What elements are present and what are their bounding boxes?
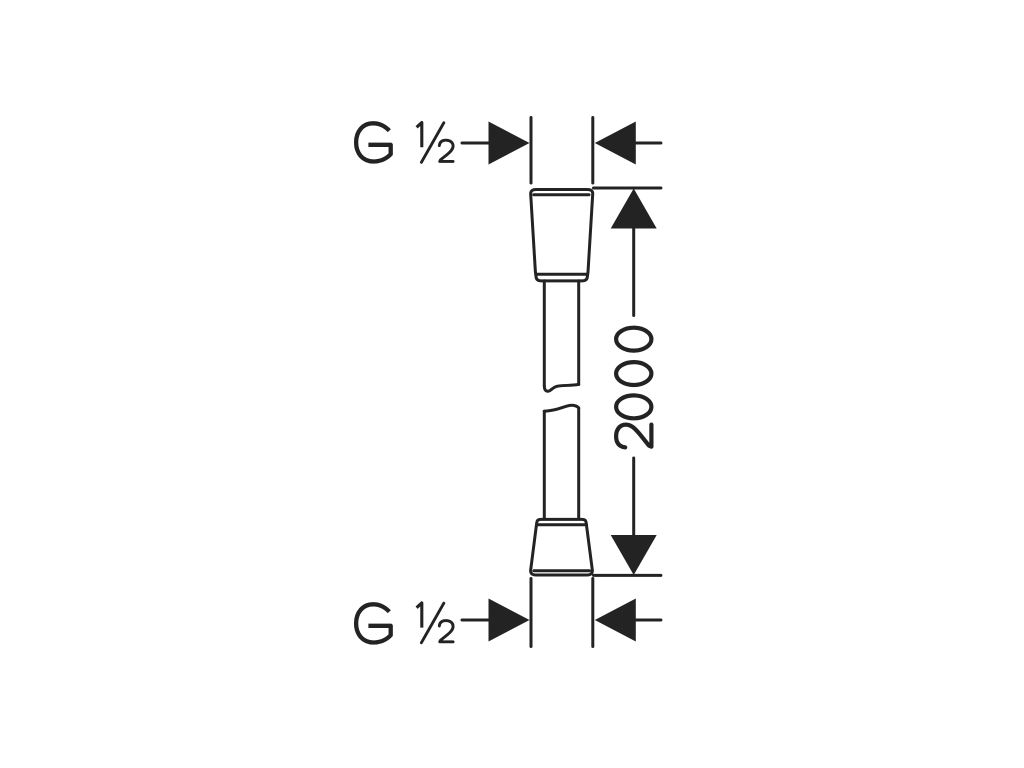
- dimension 2000 line lower segment: [632, 458, 635, 535]
- dimension 2000 value: third 0: [616, 328, 651, 351]
- leader line bottom left: [462, 619, 500, 622]
- extension line top right: [591, 118, 594, 184]
- hose tube upper segment right edge: [577, 281, 580, 385]
- dimension 2000 value: second 0: [616, 362, 651, 385]
- fraction numeral 2 top: [439, 140, 453, 161]
- tail line top right: [634, 142, 661, 145]
- hose tube upper segment left edge: [543, 281, 546, 386]
- arrowhead bottom right-pointing: [489, 599, 530, 642]
- top cone collar line: [536, 273, 587, 276]
- fraction numeral 2 bottom: [439, 621, 453, 642]
- top cone inner top line: [534, 193, 589, 196]
- leader line top left: [462, 142, 500, 145]
- dimension 2000 up arrowhead: [611, 189, 657, 229]
- fraction numeral 1 bottom: [417, 603, 422, 628]
- dimension 2000 bottom line: [594, 574, 661, 577]
- arrowhead bottom left-pointing: [595, 599, 636, 642]
- extension line top left: [530, 118, 533, 184]
- hose tube lower segment left edge: [543, 411, 546, 518]
- dimension 2000 top line: [594, 187, 661, 190]
- label G bottom: letter G: [356, 604, 391, 642]
- label G top: letter G: [356, 123, 391, 161]
- extension line bottom left: [530, 579, 533, 647]
- tail line bottom right: [634, 619, 661, 622]
- dimension 2000 down arrowhead: [611, 535, 657, 575]
- hose tube lower break wave: [544, 405, 578, 411]
- dimension 2000 value: first 0: [616, 395, 651, 418]
- dimension 2000 line upper segment: [632, 228, 635, 316]
- hose connector bottom cone outline: [531, 519, 593, 575]
- fraction slash top: [421, 123, 443, 163]
- hose connector top cone outline: [531, 190, 593, 281]
- hose tube upper break wave: [544, 384, 578, 391]
- fraction numeral 1 top: [417, 123, 422, 148]
- hose tube lower segment right edge: [577, 408, 580, 518]
- arrowhead top left-pointing: [595, 122, 636, 165]
- arrowhead top right-pointing: [489, 122, 530, 165]
- dimension 2000 value: digit 2 (rotated): [616, 425, 651, 448]
- bottom cone inner bottom line: [534, 569, 590, 572]
- fraction slash bottom: [421, 603, 443, 643]
- extension line bottom right: [591, 579, 594, 647]
- bottom cone inner collar line: [537, 523, 587, 526]
